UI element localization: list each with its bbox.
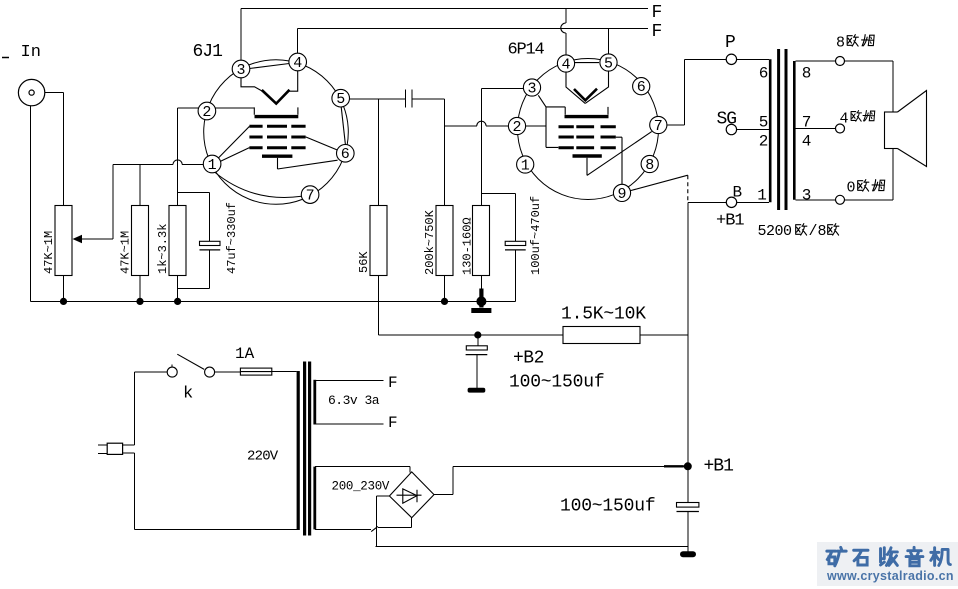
svg-text:6: 6 [637,79,646,96]
svg-text:1: 1 [521,158,530,175]
svg-text:SG: SG [717,110,737,130]
svg-text:6: 6 [759,65,769,83]
svg-text:7: 7 [654,118,663,135]
svg-text:56K: 56K [357,251,371,273]
svg-text:47K~1M: 47K~1M [42,231,56,274]
svg-text:3: 3 [236,62,245,79]
svg-text:/8: /8 [809,223,827,240]
svg-text:+B2: +B2 [513,349,544,369]
svg-text:200_230V: 200_230V [332,480,390,494]
svg-text:2: 2 [202,104,211,121]
svg-text:5200: 5200 [758,223,793,240]
svg-text:8: 8 [836,35,845,52]
svg-text:1A: 1A [235,345,255,363]
svg-text:+B1: +B1 [704,457,734,477]
svg-text:3: 3 [802,187,812,205]
svg-text:47K~1M: 47K~1M [119,231,133,274]
svg-text:100~150uf: 100~150uf [509,373,604,393]
svg-text:8: 8 [802,65,812,83]
svg-text:220V: 220V [247,449,279,465]
svg-text:200k~750K: 200k~750K [423,209,437,275]
svg-text:8: 8 [645,157,654,174]
svg-text:100~150uf: 100~150uf [560,497,655,517]
svg-text:7: 7 [802,114,812,132]
svg-text:B: B [733,184,743,202]
svg-text:1.5K~10K: 1.5K~10K [561,305,646,325]
svg-text:1: 1 [208,157,217,174]
svg-text:4: 4 [802,133,812,151]
svg-text:130-160Ω: 130-160Ω [461,217,475,275]
svg-text:5: 5 [759,114,769,132]
svg-text:F: F [652,22,663,42]
svg-text:6.3v 3a: 6.3v 3a [328,393,380,408]
svg-text:5: 5 [604,56,613,73]
svg-text:3: 3 [527,81,536,98]
svg-text:4: 4 [840,111,849,128]
svg-text:F: F [388,414,398,432]
svg-text:0: 0 [847,180,856,197]
svg-text:9: 9 [617,186,626,203]
svg-text:In: In [21,43,41,62]
svg-text:F: F [652,3,663,23]
svg-text:P: P [725,33,736,53]
svg-text:6: 6 [341,146,350,163]
svg-text:2: 2 [512,119,521,136]
svg-text:+B1: +B1 [716,212,744,231]
svg-text:F: F [388,374,398,392]
svg-text:1: 1 [757,187,767,205]
svg-text:7: 7 [306,188,315,205]
svg-text:5: 5 [336,91,345,108]
svg-text:2: 2 [759,133,769,151]
svg-text:www.crystalradio.cn: www.crystalradio.cn [826,569,954,583]
svg-text:1k~3.3k: 1k~3.3k [156,224,170,274]
svg-text:4: 4 [293,55,302,72]
svg-text:6P14: 6P14 [508,41,545,60]
svg-text:47uf~330uf: 47uf~330uf [225,202,239,274]
svg-text:6J1: 6J1 [193,42,223,62]
svg-text:100uf~470uf: 100uf~470uf [529,196,543,275]
svg-text:k: k [183,385,193,404]
svg-text:4: 4 [561,57,570,74]
